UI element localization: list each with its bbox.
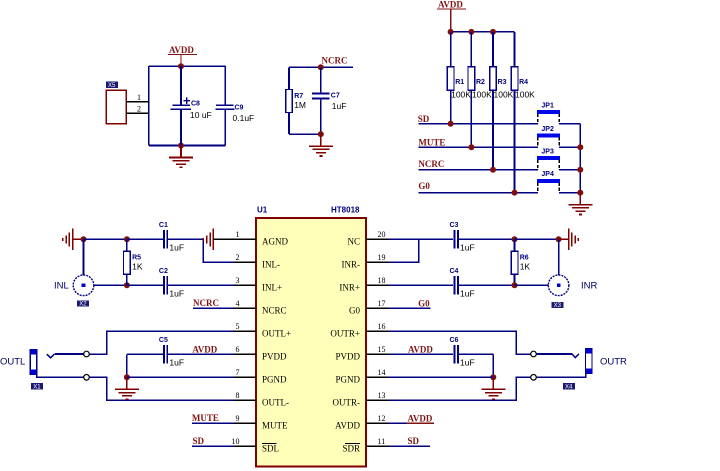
svg-text:C6: C6 <box>450 337 459 344</box>
svg-text:12: 12 <box>378 414 386 423</box>
svg-text:100K: 100K <box>451 90 471 100</box>
svg-text:18: 18 <box>378 276 386 285</box>
jumper JP1 <box>537 102 560 123</box>
resistor R2 100K <box>468 67 492 100</box>
svg-text:14: 14 <box>378 368 386 377</box>
U1 pin 16 (OUTR+) <box>330 322 388 339</box>
svg-text:6: 6 <box>236 345 240 354</box>
svg-text:C9: C9 <box>235 104 244 111</box>
junction G0 / R4 <box>512 190 518 196</box>
jack contact OUTL tip <box>84 351 90 357</box>
svg-text:0.1uF: 0.1uF <box>233 113 255 123</box>
svg-text:1M: 1M <box>294 100 306 110</box>
jumper JP3 <box>537 148 560 169</box>
wire R1 to row <box>450 90 452 124</box>
U1 pin 13 (OUTR-) <box>333 391 389 408</box>
U1 pin 3 (INL+) <box>234 276 283 293</box>
svg-text:NCRC: NCRC <box>418 159 444 169</box>
svg-text:1uF: 1uF <box>460 288 475 298</box>
capacitor C9 0.1uF <box>216 104 255 123</box>
svg-text:1uF: 1uF <box>332 101 347 111</box>
svg-text:C8: C8 <box>191 100 200 107</box>
wire to C1 <box>127 238 164 240</box>
wire C9 top <box>224 66 226 105</box>
svg-text:U1: U1 <box>257 206 268 215</box>
svg-text:8: 8 <box>236 391 240 400</box>
svg-text:2: 2 <box>137 105 141 114</box>
wire C3 to junction <box>458 238 515 240</box>
svg-text:1uF: 1uF <box>460 357 475 367</box>
svg-text:AVDD: AVDD <box>408 414 433 424</box>
jumper JP2 <box>537 126 560 147</box>
X5 pin 1 <box>126 93 149 102</box>
junction R5 bottom <box>124 282 130 288</box>
wire to analog ground INR <box>559 238 569 240</box>
wire JP1 to right rail <box>559 123 580 125</box>
U1 pin 17 (G0) <box>349 299 389 316</box>
svg-text:SD: SD <box>193 436 205 446</box>
X5 pin 2 <box>126 105 149 114</box>
wire SD to pin 10 <box>192 445 234 447</box>
wire R5 bottom lead <box>126 274 128 285</box>
wire pin 20 row to C3 <box>389 238 453 240</box>
wire rail to R4 <box>514 32 516 67</box>
svg-text:100K: 100K <box>494 90 514 100</box>
analog ground INL left <box>63 229 73 251</box>
svg-text:X4: X4 <box>565 385 573 391</box>
wire jumper right rail <box>579 124 581 193</box>
svg-text:MUTE: MUTE <box>192 413 219 423</box>
svg-text:13: 13 <box>378 391 386 400</box>
wire MUTE to pin 9 <box>192 422 234 424</box>
svg-text:JP4: JP4 <box>541 171 554 178</box>
svg-text:MUTE: MUTE <box>418 137 445 147</box>
analog ground INR <box>569 229 579 251</box>
svg-text:MUTE: MUTE <box>262 420 288 430</box>
junction PGND / ground <box>124 374 130 380</box>
svg-text:C5: C5 <box>159 337 168 344</box>
svg-text:JP1: JP1 <box>541 102 554 109</box>
svg-text:AVDD: AVDD <box>438 0 463 10</box>
wire NCRC rail <box>289 66 353 68</box>
wire jack sleeve to bottom contact <box>37 374 84 377</box>
svg-text:INR+: INR+ <box>339 282 360 292</box>
svg-text:NCRC: NCRC <box>193 298 219 308</box>
junction C7 / ground <box>318 131 324 137</box>
svg-text:PVDD: PVDD <box>335 351 360 361</box>
wire C7 top <box>320 67 322 93</box>
svg-text:15: 15 <box>378 345 386 354</box>
wire C8 top <box>180 66 182 105</box>
capacitor C1 1uF <box>159 222 184 252</box>
U1 pin 11 (SDR) <box>342 437 388 454</box>
wire C6 branch vertical <box>492 354 494 377</box>
designator X2 <box>77 300 89 307</box>
op-amp U1 HT8018 body <box>256 206 366 467</box>
svg-text:C1: C1 <box>159 222 168 229</box>
svg-text:C3: C3 <box>450 222 459 229</box>
svg-text:C2: C2 <box>159 268 168 275</box>
wire NCRC to pin 4 <box>193 307 234 309</box>
U1 pin 10 (SDL) <box>232 437 280 454</box>
wire INR jack to top junction <box>558 239 560 275</box>
svg-text:R3: R3 <box>498 79 507 86</box>
U1 pin 12 (AVDD) <box>335 414 388 431</box>
wire C5 to pin 6 <box>167 353 233 355</box>
svg-text:X5: X5 <box>108 83 116 89</box>
jumper JP4 <box>537 171 560 192</box>
wire jack sleeve to bottom contact <box>536 373 585 377</box>
ground NCRC section <box>309 134 333 156</box>
junction rail / R3 <box>490 29 496 35</box>
U1 pin 4 (NCRC) <box>234 299 287 316</box>
U1 pin 14 (PGND) <box>335 368 388 385</box>
svg-text:1: 1 <box>137 93 141 102</box>
junction INR jack top <box>556 236 562 242</box>
junction AVDD rail / C8 <box>178 63 184 69</box>
headphone jack X4 OUTR <box>586 349 627 374</box>
wire C4 to junction <box>458 284 515 286</box>
junction rail JP4 <box>577 190 583 196</box>
junction rail JP2 <box>577 144 583 150</box>
svg-text:1: 1 <box>236 230 240 239</box>
svg-text:INL+: INL+ <box>262 282 282 292</box>
resistor R1 100K <box>447 67 471 100</box>
power port AVDD top-left <box>168 45 197 66</box>
svg-text:1uF: 1uF <box>169 288 184 298</box>
svg-text:R7: R7 <box>294 93 303 100</box>
U1 pin 7 (PGND) <box>234 368 288 385</box>
svg-text:OUTR: OUTR <box>600 357 627 368</box>
capacitor C8 10uF polarized <box>170 97 211 120</box>
resistor R6 1K <box>511 251 530 274</box>
wire R3 to row <box>492 90 494 170</box>
svg-text:AVDD: AVDD <box>192 345 217 355</box>
svg-text:10 uF: 10 uF <box>190 110 212 120</box>
capacitor C5 1uF <box>159 337 184 367</box>
capacitor C7 1uF <box>312 93 346 111</box>
wire C8 bottom <box>180 109 182 145</box>
wire AVDD pullup rail <box>451 31 515 33</box>
wire R5 top lead <box>126 239 128 251</box>
wire top contact to pin 5 <box>89 331 233 354</box>
svg-text:NCRC: NCRC <box>322 56 348 66</box>
wire lever to top contact <box>55 353 84 355</box>
svg-text:INL-: INL- <box>262 259 280 269</box>
resistor R5 1K <box>124 251 143 274</box>
svg-text:SD: SD <box>408 436 420 446</box>
wire C7 bottom <box>320 99 322 135</box>
power port bar AVDD pin 12 <box>407 422 434 424</box>
svg-text:JP3: JP3 <box>541 148 554 155</box>
svg-text:20: 20 <box>378 230 386 239</box>
junction rail / R2 <box>468 29 474 35</box>
resistor R3 100K <box>490 67 514 100</box>
svg-text:7: 7 <box>236 368 240 377</box>
junction rail JP3 <box>577 167 583 173</box>
svg-text:1K: 1K <box>132 262 143 272</box>
designator X5 <box>106 82 118 89</box>
svg-text:OUTL: OUTL <box>0 357 25 368</box>
svg-text:PVDD: PVDD <box>262 351 287 361</box>
resistor R7 1M <box>286 90 306 113</box>
wire pin 18 to C4 <box>389 284 453 286</box>
wire R6 top lead <box>514 239 516 251</box>
svg-text:R2: R2 <box>476 79 485 86</box>
wire JP2 to right rail <box>559 146 580 148</box>
wire R7 bottom <box>288 112 290 134</box>
wire left vertical from X5 <box>148 66 150 145</box>
wire C1 to pin 2 (corner) <box>167 239 233 262</box>
svg-text:G0: G0 <box>349 305 360 315</box>
wire R7/C7 bottom rail <box>289 133 321 135</box>
wire rail to R2 <box>470 32 472 67</box>
wire pin 20 row to C3 with riser to pin 19 <box>389 239 419 262</box>
svg-text:1uF: 1uF <box>169 242 184 252</box>
wire NCRC row <box>418 169 538 171</box>
svg-text:X3: X3 <box>554 303 562 309</box>
wire C2 to pin 3 <box>167 284 233 286</box>
svg-text:AVDD: AVDD <box>169 45 194 55</box>
wire MUTE row <box>418 146 538 148</box>
wire SD from pin 11 <box>389 445 431 447</box>
svg-text:R5: R5 <box>132 255 141 262</box>
wire INL top row <box>84 238 127 240</box>
ground jumper rail <box>568 193 592 215</box>
junction NCRC rail / C7 <box>318 64 324 70</box>
jack contact OUTR tip <box>531 351 537 357</box>
svg-text:2: 2 <box>236 253 240 262</box>
wire to INR jack column <box>515 238 559 240</box>
ground OUTR section <box>481 377 505 399</box>
wire pin 15 to C6 <box>389 353 453 355</box>
U1 pin 20 (NC) <box>347 230 388 247</box>
wire R2 to row <box>470 90 472 147</box>
svg-text:G0: G0 <box>418 181 430 191</box>
junction INL top <box>81 236 87 242</box>
svg-text:G0: G0 <box>418 298 430 308</box>
wire C5 branch vertical <box>126 354 128 377</box>
junction SD / R1 <box>448 121 454 127</box>
svg-text:3: 3 <box>236 276 240 285</box>
svg-text:19: 19 <box>378 253 386 262</box>
wire bottom contact to pin 8 <box>89 377 233 400</box>
designator X4 <box>563 383 575 390</box>
analog ground at pin 1 <box>203 229 213 251</box>
wire AVDD from pin 12 <box>389 422 435 424</box>
svg-text:C4: C4 <box>450 268 459 275</box>
power port AVDD top-right <box>437 0 466 32</box>
designator X1 <box>31 383 43 390</box>
U1 pin 2 (INL-) <box>234 253 281 270</box>
U1 pin 8 (OUTL-) <box>234 391 290 408</box>
ground power section <box>169 146 193 168</box>
svg-text:JP2: JP2 <box>541 126 554 133</box>
ground OUTL section <box>115 377 139 399</box>
wire junction to INL jack <box>83 239 85 275</box>
svg-text:SDL: SDL <box>262 443 279 453</box>
jack contact OUTR sleeve <box>531 375 537 381</box>
wire to C5 <box>127 353 164 355</box>
connector X5 body <box>106 90 126 124</box>
wire JP4 to right rail <box>559 192 580 194</box>
wire analog ground to pin 1 <box>214 238 257 240</box>
wire contact to lever <box>536 353 572 355</box>
wire pin 14 PGND <box>389 376 494 378</box>
svg-text:R1: R1 <box>455 79 464 86</box>
headphone jack X1 OUTL <box>0 350 37 375</box>
svg-text:R4: R4 <box>519 79 528 86</box>
capacitor C4 1uF <box>450 268 475 298</box>
svg-text:11: 11 <box>378 437 386 446</box>
U1 pin 15 (PVDD) <box>335 345 388 362</box>
wire INL jack to R5 bottom <box>94 284 127 286</box>
wire pin 16 to top contact <box>389 331 531 354</box>
svg-text:1uF: 1uF <box>169 357 184 367</box>
svg-text:PGND: PGND <box>262 374 287 384</box>
jack contact OUTL sleeve <box>84 375 90 381</box>
svg-text:100K: 100K <box>472 90 492 100</box>
svg-text:NC: NC <box>347 236 360 246</box>
svg-text:5: 5 <box>236 322 240 331</box>
U1 pin 1 (AGND) <box>234 230 289 247</box>
svg-text:X1: X1 <box>33 385 41 391</box>
wire R4 to row <box>514 90 516 192</box>
wire bottom contact to pin 13 <box>389 377 531 400</box>
phono jack INR <box>548 275 597 296</box>
svg-text:1K: 1K <box>520 262 531 272</box>
wire G0 row <box>418 192 538 194</box>
junction PGND right / ground <box>490 374 496 380</box>
capacitor C6 1uF <box>450 337 475 367</box>
wire rail to R1 <box>450 32 452 67</box>
svg-text:10: 10 <box>232 437 240 446</box>
junction bottom rail / ground <box>178 143 184 149</box>
svg-text:AVDD: AVDD <box>408 345 433 355</box>
svg-text:INR-: INR- <box>342 259 361 269</box>
wire ground to junction <box>73 238 84 240</box>
junction R6 top <box>512 236 518 242</box>
wire JP3 to right rail <box>559 169 580 171</box>
wire to INR jack <box>515 284 549 286</box>
svg-text:AGND: AGND <box>262 236 288 246</box>
wire C9 bottom <box>224 109 226 145</box>
wire G0 from pin 17 <box>389 307 431 309</box>
svg-text:AVDD: AVDD <box>335 420 360 430</box>
svg-text:4: 4 <box>236 299 240 308</box>
U1 pin 9 (MUTE) <box>234 414 288 431</box>
svg-text:HT8018: HT8018 <box>331 206 360 215</box>
wire SD row <box>418 123 538 125</box>
jack X4 switch lever <box>572 354 579 358</box>
wire C6 to junction <box>458 353 493 355</box>
svg-text:OUTL+: OUTL+ <box>262 328 291 338</box>
svg-text:OUTR-: OUTR- <box>333 397 361 407</box>
svg-text:9: 9 <box>236 414 240 423</box>
wire bottom rail to ground <box>149 145 225 147</box>
svg-text:OUTL-: OUTL- <box>262 397 289 407</box>
U1 pin 18 (INR+) <box>339 276 388 293</box>
wire R6 bottom lead <box>514 274 516 285</box>
wire pin 7 PGND <box>127 376 234 378</box>
designator X3 <box>551 302 563 309</box>
svg-text:100K: 100K <box>515 90 535 100</box>
svg-text:INL: INL <box>54 280 69 291</box>
resistor R4 100K <box>511 67 535 100</box>
svg-text:X2: X2 <box>79 302 87 308</box>
phono jack INL <box>54 275 94 296</box>
svg-text:SD: SD <box>418 114 430 124</box>
junction rail / R1 <box>448 29 454 35</box>
wire to C2 <box>127 284 164 286</box>
junction NCRC / R3 <box>490 167 496 173</box>
svg-text:PGND: PGND <box>335 374 360 384</box>
svg-text:SDR: SDR <box>342 443 360 453</box>
svg-text:17: 17 <box>378 299 386 308</box>
svg-text:R6: R6 <box>520 255 529 262</box>
svg-text:INR: INR <box>581 280 598 291</box>
wire top rail AVDD <box>149 65 225 67</box>
wire rail to R3 <box>492 32 494 67</box>
capacitor C2 1uF <box>159 268 184 298</box>
junction R6 bottom <box>512 282 518 288</box>
jack X1 switch lever <box>47 354 55 358</box>
svg-text:OUTR+: OUTR+ <box>330 328 360 338</box>
U1 pin 6 (PVDD) <box>234 345 288 362</box>
junction R5 top <box>124 236 130 242</box>
U1 pin 19 (INR-) <box>342 253 389 270</box>
capacitor C3 1uF <box>450 222 475 252</box>
U1 pin 5 (OUTL+) <box>234 322 292 339</box>
svg-text:C7: C7 <box>331 93 340 100</box>
wire R7 top <box>288 67 290 89</box>
svg-text:1uF: 1uF <box>460 242 475 252</box>
junction MUTE / R2 <box>468 144 474 150</box>
svg-text:NCRC: NCRC <box>262 305 287 315</box>
svg-text:16: 16 <box>378 322 386 331</box>
